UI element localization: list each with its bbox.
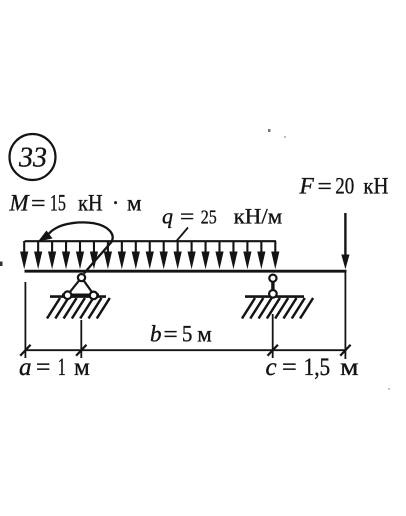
svg-text:F=20кН: F=20кН bbox=[299, 174, 389, 200]
svg-text:q=25кН/м: q=25кН/м bbox=[162, 204, 282, 229]
svg-text:33: 33 bbox=[18, 143, 47, 174]
svg-text:b=5м: b=5м bbox=[150, 321, 212, 346]
svg-text:a=1м: a=1м bbox=[19, 354, 90, 381]
svg-text:M=15кН·м: M=15кН·м bbox=[9, 191, 143, 216]
